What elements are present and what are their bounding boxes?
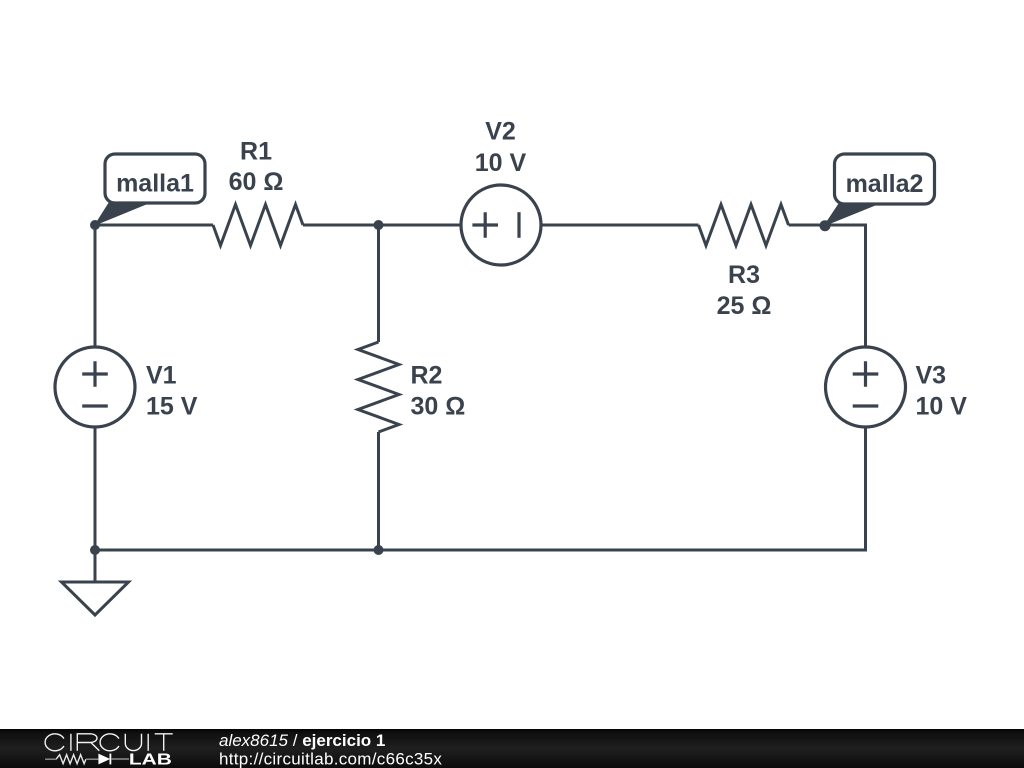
svg-text:http://circuitlab.com/c66c35x: http://circuitlab.com/c66c35x (219, 749, 442, 768)
footer bar (0, 729, 1024, 768)
node B junction dot (374, 220, 384, 230)
svg-text:V1: V1 (146, 362, 177, 390)
wire R2 bottom stem (377, 432, 380, 550)
svg-text:R3: R3 (728, 261, 760, 289)
resistor R2 (358, 342, 399, 432)
net flag malla1 pointer (95, 203, 149, 225)
svg-text:60 Ω: 60 Ω (229, 168, 284, 196)
svg-text:malla2: malla2 (846, 170, 924, 198)
resistor R1 (213, 205, 303, 246)
net flag malla2 pointer (825, 204, 878, 226)
logo CIRCUIT letters (45, 734, 173, 751)
svg-text:30 Ω: 30 Ω (411, 393, 466, 421)
svg-text:LAB: LAB (129, 752, 172, 768)
node C junction dot (malla2 anchor) (820, 220, 831, 231)
svg-text:10 V: 10 V (475, 149, 527, 177)
wire R3 end through node C, top-right corner down to V3 (789, 225, 866, 347)
svg-text:V3: V3 (916, 362, 947, 390)
resistor R3 (699, 205, 789, 246)
wire left: V1 top up to node A (94, 225, 97, 347)
svg-text:25 Ω: 25 Ω (717, 292, 772, 320)
svg-text:10 V: 10 V (916, 393, 968, 421)
voltage source V1 (55, 347, 135, 427)
net flag malla1 box (105, 154, 205, 203)
voltage source V2 (461, 185, 541, 265)
wire V2 to R3 start (541, 224, 699, 227)
node E junction dot (R2 bottom) (374, 545, 384, 555)
svg-text:alex8615 / ejercicio 1: alex8615 / ejercicio 1 (219, 731, 385, 750)
wire top-left: node A to R1, corner down left side (95, 225, 213, 347)
svg-text:malla1: malla1 (116, 169, 194, 197)
net flag malla2 box (835, 154, 935, 204)
svg-text:V2: V2 (485, 118, 516, 146)
logo resistor-diode glyph (45, 754, 129, 765)
wire R1 to node B to V2 (303, 224, 461, 227)
wire bottom U: V3 bottom, bottom-right corner, bottom rail, bottom-left up to V1 (95, 427, 866, 550)
node D junction dot (ground) (90, 545, 100, 555)
wire R2 top stem (377, 225, 380, 342)
svg-text:15 V: 15 V (146, 393, 198, 421)
voltage source V3 (826, 347, 906, 427)
node A junction dot (90, 220, 100, 230)
svg-text:R1: R1 (240, 138, 272, 166)
svg-text:R2: R2 (411, 362, 443, 390)
ground stem (94, 550, 97, 582)
ground (62, 582, 129, 615)
